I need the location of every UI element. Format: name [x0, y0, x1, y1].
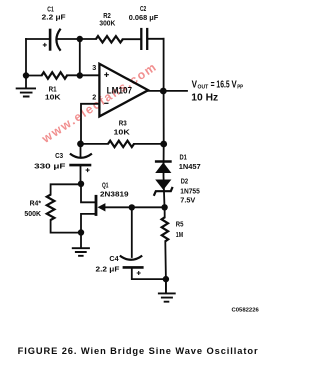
svg-text:R3: R3 — [119, 118, 127, 127]
svg-text:C0582226: C0582226 — [232, 308, 260, 314]
svg-text:10K: 10K — [45, 92, 61, 101]
svg-text:2N3819: 2N3819 — [100, 190, 129, 199]
svg-text:D2: D2 — [181, 177, 188, 186]
svg-text:R5: R5 — [176, 220, 184, 229]
svg-text:10K: 10K — [114, 128, 131, 137]
svg-text:C4: C4 — [109, 254, 119, 263]
svg-text:10 Hz: 10 Hz — [191, 93, 218, 104]
svg-text:PP: PP — [237, 85, 243, 91]
svg-text:0.068 μF: 0.068 μF — [129, 13, 159, 22]
svg-text:1N457: 1N457 — [179, 162, 201, 171]
svg-text:1N755: 1N755 — [180, 186, 200, 195]
svg-text:R4*: R4* — [30, 199, 41, 208]
svg-text:C3: C3 — [55, 151, 63, 160]
svg-text:D1: D1 — [180, 152, 188, 161]
svg-text:1M: 1M — [176, 230, 183, 239]
svg-text:OUT: OUT — [198, 85, 209, 91]
svg-text:V: V — [192, 80, 198, 91]
svg-text:7.5V: 7.5V — [180, 196, 196, 205]
svg-text:330 μF: 330 μF — [34, 162, 66, 171]
svg-text:= 16.5: = 16.5 — [211, 80, 230, 91]
svg-text:C2: C2 — [140, 4, 146, 13]
svg-text:300K: 300K — [99, 19, 115, 28]
svg-text:3: 3 — [92, 63, 96, 72]
svg-text:500K: 500K — [24, 209, 41, 218]
svg-text:2.2 μF: 2.2 μF — [96, 265, 120, 274]
svg-text:2.2 μF: 2.2 μF — [42, 13, 66, 22]
svg-text:FIGURE 26. Wien Bridge Sine Wa: FIGURE 26. Wien Bridge Sine Wave Oscilla… — [18, 346, 258, 356]
svg-text:Q1: Q1 — [102, 180, 109, 189]
